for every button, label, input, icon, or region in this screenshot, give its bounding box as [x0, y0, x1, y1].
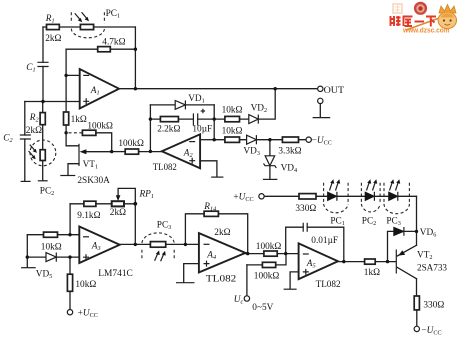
- wire A5 feedback loop: [286, 227, 344, 261]
- svg-text:2kΩ: 2kΩ: [26, 126, 42, 136]
- junction A3 minus: [68, 233, 71, 236]
- wire to A2 output: [139, 151, 162, 153]
- wire A2 loop right vertical: [213, 105, 215, 140]
- wire row B 10k VD2: [214, 89, 275, 119]
- LED PC2 dashed cell: [361, 183, 380, 212]
- watermark text yi: [415, 21, 425, 23]
- capacitor C1: [37, 62, 48, 66]
- PC1 dashed enclosure: [71, 12, 104, 38]
- svg-text:2.2kΩ: 2.2kΩ: [157, 125, 180, 135]
- svg-text:LM741C: LM741C: [98, 269, 133, 279]
- wire VD5 row: [27, 256, 79, 258]
- resistor 2.2k: [160, 117, 178, 122]
- transistor VT1 source: [68, 164, 79, 175]
- ground PC2: [38, 180, 48, 182]
- watermark ghost characters: [393, 4, 402, 13]
- watermark text wei: [390, 16, 401, 26]
- op-amp A1: [80, 69, 119, 109]
- svg-text:10kΩ: 10kΩ: [75, 280, 96, 290]
- transistor VT1 gate arrow: [84, 151, 112, 153]
- junction VD2 to output: [274, 87, 277, 90]
- potentiometer RP1: [112, 201, 124, 206]
- wire plus input row: [25, 101, 80, 103]
- ground A5: [284, 288, 297, 290]
- svg-text:330Ω: 330Ω: [295, 204, 316, 214]
- svg-text:www.dzsc.com: www.dzsc.com: [402, 26, 450, 35]
- diode VD2: [249, 115, 258, 124]
- wire 2.2k cap row: [150, 118, 214, 120]
- resistor 10k A3: [44, 232, 58, 237]
- transistor VT2 emitter: [397, 245, 416, 256]
- wire emitter vertical: [416, 196, 418, 245]
- ground VD4: [263, 178, 278, 180]
- junction VT1 gate: [110, 150, 113, 153]
- wire left vertical to ground: [26, 235, 28, 267]
- RP1 wiper arrow: [118, 188, 135, 203]
- wire feedback vertical right: [134, 27, 136, 89]
- plus mark 10uF: [201, 109, 205, 113]
- wire 100k to gate: [96, 133, 112, 152]
- junction feedback top: [134, 48, 137, 51]
- ground C2: [21, 180, 31, 182]
- svg-text:100kΩ: 100kΩ: [256, 242, 282, 252]
- wire A2 minus row: [200, 139, 214, 141]
- wire Uc branch: [246, 265, 248, 296]
- resistor 100k top: [264, 251, 277, 256]
- PC3 dashed enclosure: [142, 233, 174, 259]
- LED PC3: [389, 192, 398, 201]
- watermark mascot crown: [439, 5, 456, 14]
- resistor 10k row C: [225, 137, 240, 142]
- svg-text:4.7kΩ: 4.7kΩ: [102, 38, 125, 48]
- wire collector to 330: [416, 279, 418, 327]
- svg-text:OUT: OUT: [324, 86, 345, 96]
- LED PC3 light arrows: [390, 179, 401, 190]
- diode VD3: [247, 135, 257, 144]
- svg-text:10kΩ: 10kΩ: [222, 106, 243, 116]
- LED PC1 dashed cell: [324, 183, 349, 213]
- wire A4 output row: [245, 253, 298, 255]
- wire dashed gate link: [69, 132, 83, 134]
- ground VT1: [60, 175, 75, 177]
- wire 10k vertical branch: [69, 257, 71, 309]
- wire 4.7k feedback row: [66, 48, 135, 50]
- junction A1 output: [134, 87, 137, 90]
- svg-text:100kΩ: 100kΩ: [254, 272, 280, 282]
- junction A2 output: [149, 150, 152, 153]
- photoresistor PC1: [80, 24, 93, 29]
- terminal +Ucc: [67, 310, 72, 315]
- junction VD5 left: [26, 255, 29, 258]
- svg-text:1kΩ: 1kΩ: [71, 115, 87, 125]
- transistor VT2 channel: [395, 250, 397, 274]
- ground A4: [176, 282, 195, 284]
- svg-text:100kΩ: 100kΩ: [118, 139, 144, 149]
- svg-text:330Ω: 330Ω: [423, 301, 444, 311]
- junction VT1 drain: [64, 131, 67, 134]
- junction VD4 top: [268, 138, 271, 141]
- terminal +Ucc LED row: [259, 194, 264, 199]
- svg-text:10kΩ: 10kΩ: [41, 243, 62, 253]
- svg-text:0.01µF: 0.01µF: [311, 236, 338, 246]
- resistor 1k vertical: [64, 112, 69, 125]
- wire LED row: [264, 195, 416, 197]
- op-amp A4: [199, 233, 246, 272]
- ground test terminal: [318, 98, 323, 103]
- svg-text:0~5V: 0~5V: [252, 303, 273, 313]
- wire top row R1-PC1: [43, 26, 135, 28]
- wire VD1 row: [150, 104, 214, 106]
- wire A5 plus to ground: [290, 272, 299, 289]
- terminal -Ucc lower: [414, 326, 419, 331]
- watermark red seal circle: [414, 2, 427, 15]
- capacitor 10uF: [193, 113, 197, 125]
- resistor 10k row B: [225, 116, 240, 121]
- wire VD6 branch: [388, 231, 417, 261]
- wire R2 branch: [42, 102, 44, 181]
- wire A4 feedback loop: [185, 214, 247, 254]
- wire left vertical through C1: [42, 27, 44, 102]
- svg-text:TL082: TL082: [316, 280, 341, 290]
- resistor 3.3k: [282, 137, 298, 142]
- wire C2 branch: [24, 102, 26, 181]
- wire A3 output row: [120, 243, 199, 245]
- resistor R1: [47, 24, 60, 29]
- resistor 9.1k: [84, 201, 96, 206]
- wire A3 minus row: [27, 234, 79, 236]
- op-amp A2: [162, 134, 200, 168]
- resistor 1k out: [365, 259, 376, 264]
- resistor R2: [40, 113, 45, 125]
- junction A3 output: [134, 243, 137, 246]
- LED PC1 light arrows: [330, 179, 341, 190]
- diode VD6: [394, 227, 404, 235]
- op-amp A3: [79, 227, 119, 264]
- svg-text:2kΩ: 2kΩ: [45, 34, 61, 44]
- svg-text:2kΩ: 2kΩ: [110, 208, 126, 218]
- junction A4 output: [246, 252, 249, 255]
- PC2 light arrows: [29, 145, 37, 160]
- resistor R14: [204, 211, 218, 216]
- LED PC1: [328, 192, 337, 201]
- svg-text:1kΩ: 1kΩ: [364, 268, 380, 278]
- wire VT1 drain branch: [66, 133, 78, 146]
- transistor VT1 channel: [78, 144, 80, 166]
- wire minus input branch: [66, 49, 80, 75]
- wire A2 plus to ground: [200, 161, 217, 177]
- svg-text:2kΩ: 2kΩ: [214, 228, 230, 238]
- LED PC3 dashed cell: [384, 183, 409, 214]
- wire 100k bottom branch: [247, 254, 286, 265]
- wire A5 output row: [338, 261, 396, 263]
- PC2 dashed circle: [30, 140, 56, 166]
- svg-text:TL082: TL082: [206, 275, 237, 285]
- terminal -Ucc upper: [306, 137, 311, 142]
- capacitor C2: [20, 135, 31, 139]
- junction RP1 right: [133, 202, 137, 206]
- svg-text:TL082: TL082: [153, 163, 177, 173]
- op-amp A5: [299, 243, 338, 279]
- wire A2 loop left vertical: [149, 105, 151, 152]
- photoresistor PC3: [150, 242, 165, 248]
- diode VD5: [46, 253, 56, 262]
- resistor 330 lower: [414, 296, 419, 310]
- ground VD5: [21, 267, 36, 269]
- PC3 light arrows: [155, 250, 166, 261]
- wire 9.1k RP1 row: [70, 203, 135, 205]
- svg-text:10kΩ: 10kΩ: [222, 127, 243, 137]
- junction A1 plus: [41, 100, 44, 103]
- wire 1k branch: [65, 75, 67, 132]
- junction A3 plus: [68, 255, 71, 258]
- watermark text ku: [403, 17, 413, 27]
- resistor 100k lower: [125, 149, 138, 154]
- resistor 330 upper: [299, 194, 316, 199]
- resistor 4.7k: [98, 47, 111, 52]
- junction cap right: [213, 117, 216, 120]
- junction A5 output: [342, 260, 345, 263]
- terminal OUT: [318, 86, 323, 91]
- LED PC2 light arrows: [367, 179, 378, 190]
- wire RP1 right vertical: [134, 204, 136, 245]
- wire gate row to 100k B: [112, 151, 126, 153]
- svg-text:3.3kΩ: 3.3kΩ: [278, 147, 301, 157]
- junction A4 minus: [184, 243, 187, 246]
- junction A1 minus: [64, 74, 67, 77]
- zener VD4: [269, 140, 271, 179]
- resistor 100k upper: [82, 130, 96, 135]
- capacitor 0.01uF: [303, 223, 307, 232]
- junction A5 minus: [284, 252, 287, 255]
- terminal Uc: [244, 296, 249, 301]
- PC1 light arrows: [75, 12, 89, 22]
- wire 9.1k left vertical: [69, 204, 71, 235]
- LED PC2: [365, 192, 374, 201]
- junction VD6 cathode: [415, 230, 418, 233]
- wire row C 10k VD3: [214, 139, 306, 141]
- ground A2: [211, 176, 223, 178]
- wire A4 plus to ground: [184, 264, 199, 282]
- watermark text xia: [426, 17, 436, 27]
- svg-text:100kΩ: 100kΩ: [87, 122, 113, 132]
- photoresistor PC2: [40, 150, 45, 161]
- diode VD1: [175, 101, 185, 110]
- wire A1 output row: [119, 88, 318, 90]
- svg-text:10µF: 10µF: [192, 125, 212, 135]
- watermark mascot stick: [406, 14, 451, 30]
- svg-text:9.1kΩ: 9.1kΩ: [77, 211, 100, 221]
- junction VT2 base: [386, 260, 389, 263]
- svg-text:2SK30A: 2SK30A: [77, 176, 110, 186]
- resistor 100k bottom: [262, 262, 275, 267]
- resistor 10k vertical: [67, 274, 72, 291]
- watermark mascot face: [438, 12, 456, 29]
- svg-text:2SA733: 2SA733: [417, 264, 447, 274]
- junction A2 minus: [213, 138, 216, 141]
- transistor VT2 collector: [397, 267, 416, 278]
- junction 2.2k left: [149, 117, 152, 120]
